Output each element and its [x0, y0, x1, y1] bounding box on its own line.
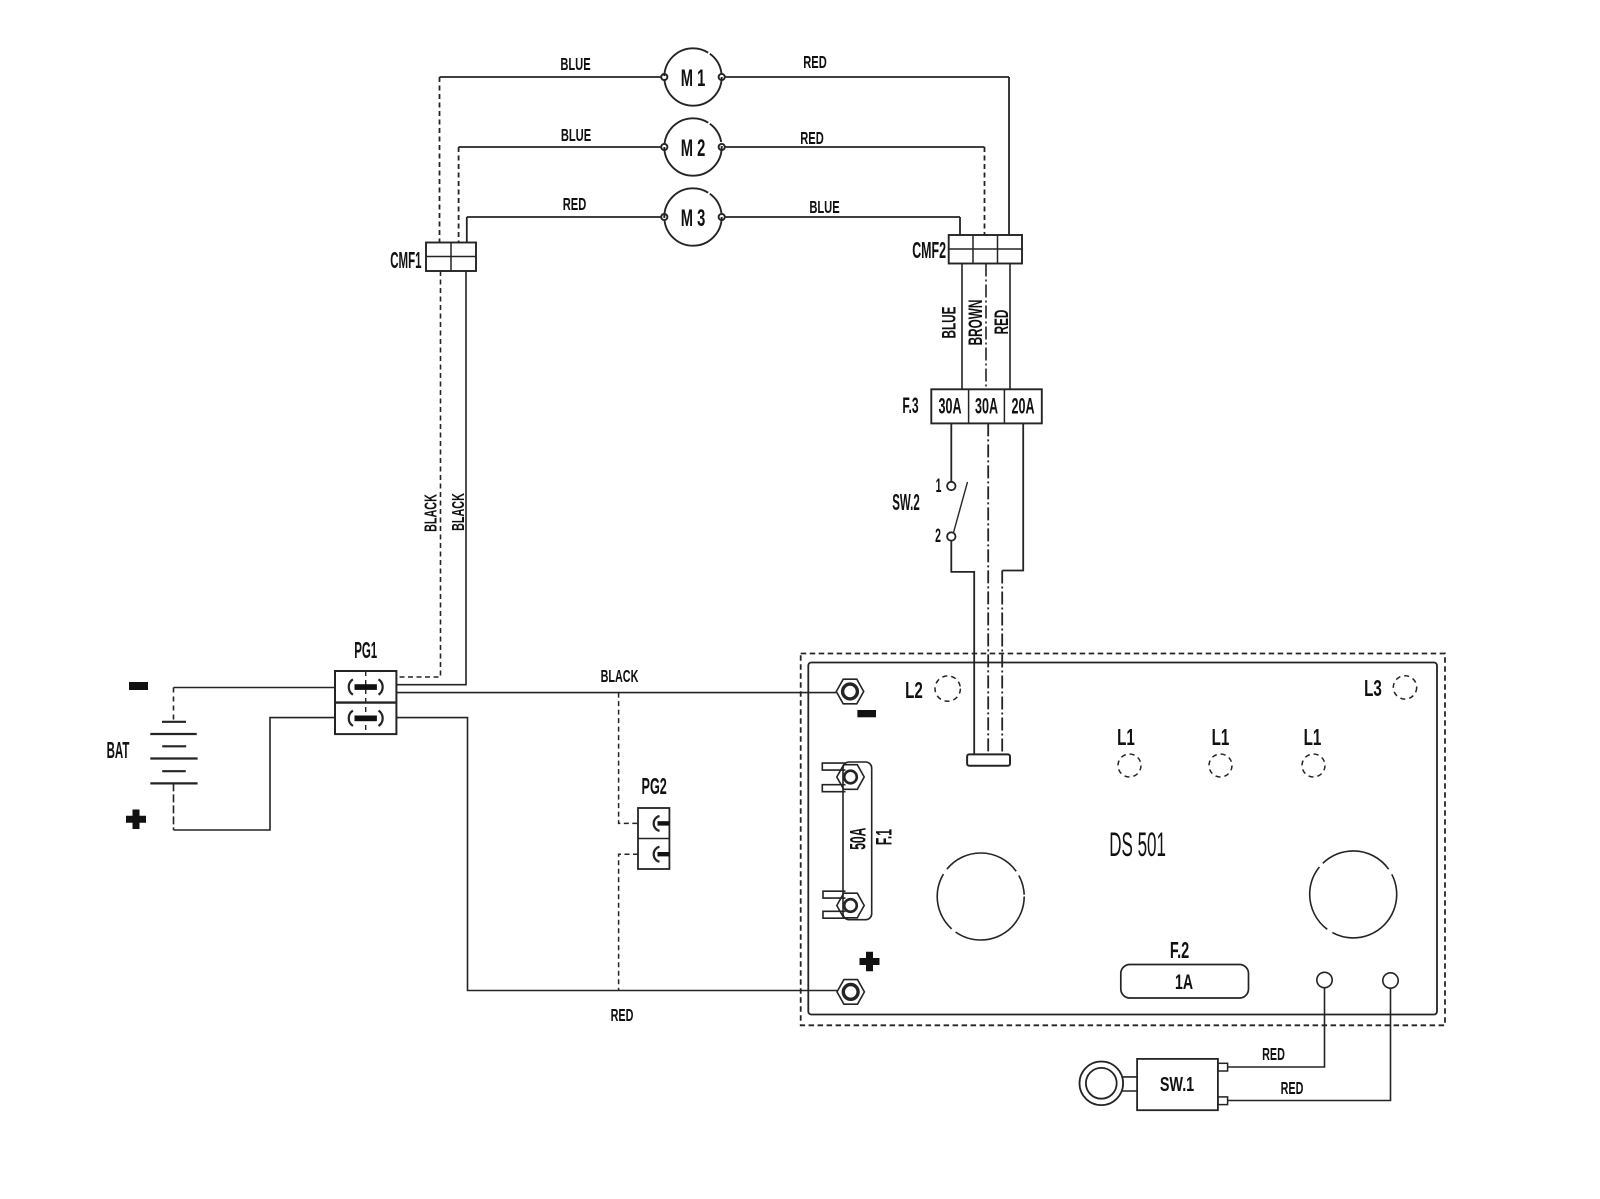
- wire battery minus to PG1: [174, 687, 336, 689]
- svg-text:M 3: M 3: [681, 205, 705, 232]
- SW.1 pin top: [1218, 1063, 1228, 1071]
- svg-text:RED: RED: [563, 194, 587, 214]
- lamp L1 #3 dashed circle: [1302, 754, 1325, 777]
- connector CMF1: [390, 243, 476, 274]
- svg-text:L1: L1: [1212, 725, 1230, 751]
- wire CMF2 to F.3 cell1: [961, 264, 963, 390]
- connector PG2: [638, 773, 669, 869]
- battery plus sign: [126, 810, 146, 830]
- hex top: [837, 765, 864, 790]
- lamp L2 dashed circle: [935, 676, 960, 701]
- wire M3 right BLUE horizontal: [725, 216, 960, 218]
- svg-text:M 2: M 2: [681, 135, 705, 162]
- hex bottom: [837, 893, 864, 918]
- SW.1 ring terminal: [1080, 1062, 1138, 1106]
- wire small circle left to SW.1 top pin RED: [1228, 988, 1325, 1067]
- svg-text:F.2: F.2: [1170, 939, 1189, 964]
- svg-text:L2: L2: [905, 678, 923, 704]
- svg-text:BLUE: BLUE: [940, 306, 960, 338]
- wire PG2 to RED dashed: [619, 854, 638, 990]
- wire SW.2 terminal2 down with step: [951, 541, 974, 755]
- plus bold sign: [860, 952, 880, 971]
- wire M1 right vertical to CMF2: [1008, 77, 1010, 235]
- svg-text:BLUE: BLUE: [560, 54, 590, 74]
- switch SW.1 box: [1137, 1059, 1218, 1110]
- wire M2 right RED horizontal: [725, 146, 985, 148]
- wire battery plus to PG1: [174, 718, 336, 830]
- battery minus sign: [129, 682, 148, 690]
- wire M1 left BLUE horizontal: [440, 76, 662, 78]
- svg-text:SW.1: SW.1: [1160, 1073, 1195, 1096]
- svg-text:RED: RED: [1281, 1079, 1304, 1098]
- fork prongs bottom: [823, 891, 846, 918]
- svg-text:SW.2: SW.2: [892, 490, 919, 515]
- wire M1 left vertical dashed to CMF1: [439, 77, 441, 243]
- wire M3 left RED horizontal: [467, 216, 661, 218]
- svg-text:L3: L3: [1364, 676, 1382, 702]
- wire M3 right vertical to CMF2: [959, 217, 961, 235]
- svg-text:20A: 20A: [1012, 394, 1035, 419]
- wire M3 left vertical to CMF1: [466, 217, 468, 243]
- PG2 terminal glyph bottom: [654, 847, 670, 862]
- svg-text:BLUE: BLUE: [809, 197, 839, 217]
- svg-text:1: 1: [936, 476, 942, 497]
- svg-text:1A: 1A: [1175, 970, 1193, 993]
- small circle terminal left: [1317, 972, 1332, 987]
- svg-text:50A: 50A: [846, 827, 871, 849]
- terminal minus hex: [836, 679, 863, 704]
- motor M2: [661, 118, 725, 175]
- svg-text:RED: RED: [800, 128, 824, 148]
- svg-text:M 1: M 1: [681, 65, 705, 92]
- svg-text:F.3: F.3: [902, 393, 918, 418]
- svg-text:RED: RED: [611, 1006, 634, 1025]
- fuse block F.3: [902, 389, 1041, 423]
- svg-text:RED: RED: [803, 52, 827, 72]
- svg-text:CMF1: CMF1: [390, 248, 421, 273]
- wire CMF2 to F.3 cell3: [1009, 264, 1011, 390]
- svg-text:BROWN: BROWN: [966, 300, 986, 346]
- svg-text:PG1: PG1: [354, 638, 377, 663]
- big circle left: [937, 853, 1024, 940]
- lamp L3 dashed circle: [1393, 676, 1416, 699]
- DS501 enclosure outer dashed border: [801, 654, 1445, 1026]
- svg-text:BAT: BAT: [107, 738, 130, 763]
- big circle right: [1310, 851, 1397, 938]
- svg-text:BLACK: BLACK: [422, 494, 441, 532]
- svg-text:2: 2: [935, 526, 941, 547]
- fork prongs top: [822, 763, 845, 792]
- svg-text:L1: L1: [1304, 725, 1322, 751]
- minus bold sign: [857, 710, 876, 717]
- connector bar inside DS501: [967, 754, 1010, 765]
- svg-text:DS 501: DS 501: [1109, 826, 1166, 864]
- wire M2 right vertical dashed to CMF2: [984, 147, 986, 235]
- DS501 enclosure inner solid border: [808, 663, 1437, 1015]
- wire CMF1 to PG1 dashed BLACK: [396, 271, 440, 677]
- lamp L1 #1 dashed circle: [1118, 754, 1141, 777]
- small circle terminal right: [1383, 973, 1398, 988]
- wire right dash-dot down to bar: [1001, 571, 1003, 755]
- wire F.3 20A down with step: [1002, 423, 1023, 570]
- svg-text:BLACK: BLACK: [449, 493, 468, 531]
- wire M2 left vertical dashed to CMF1: [458, 147, 460, 243]
- fuse F.1 body: [822, 762, 896, 920]
- connector PG1: [335, 638, 396, 734]
- svg-text:RED: RED: [1262, 1045, 1285, 1064]
- connector CMF2: [912, 235, 1022, 264]
- SW.1 pin bottom: [1218, 1097, 1228, 1105]
- wire small circle right to SW.1 bottom pin RED: [1228, 988, 1391, 1100]
- svg-text:CMF2: CMF2: [912, 237, 946, 263]
- svg-text:30A: 30A: [975, 394, 998, 419]
- wire BLACK to PG2 dashed: [619, 693, 638, 824]
- PG1 terminal glyph row2: [349, 711, 383, 726]
- switch SW.2: [892, 476, 967, 547]
- wire M1 right RED horizontal: [725, 76, 1009, 78]
- svg-text:PG2: PG2: [642, 773, 667, 799]
- motor M3: [661, 188, 725, 245]
- battery BAT: [107, 688, 198, 831]
- lamp L1 #2 dashed circle: [1209, 754, 1232, 777]
- PG2 terminal glyph top: [654, 816, 670, 831]
- wire F.3 30A#1 down to SW.2 terminal 1: [950, 423, 952, 481]
- svg-text:BLUE: BLUE: [561, 125, 591, 145]
- PG1 terminal glyph row1: [349, 679, 383, 694]
- terminal plus hex: [837, 980, 864, 1005]
- wire CMF1 to PG1 solid BLACK: [396, 271, 466, 685]
- svg-text:L1: L1: [1117, 725, 1135, 751]
- svg-text:30A: 30A: [939, 394, 962, 419]
- wire M2 left BLUE horizontal: [459, 146, 662, 148]
- wire PG1 to DS501 minus BLACK: [396, 692, 836, 694]
- svg-text:F.1: F.1: [872, 829, 897, 845]
- svg-text:BLACK: BLACK: [601, 667, 639, 686]
- wire CMF2 to F.3 cell2 dash-dot: [985, 264, 987, 390]
- wire F.3 30A#2 down dash-dot to bar: [987, 423, 989, 754]
- motor M1: [661, 48, 725, 105]
- fuse F.2 body: [1121, 965, 1249, 999]
- wire PG1 bottom row to RED wire: [396, 718, 837, 991]
- svg-text:RED: RED: [992, 310, 1012, 335]
